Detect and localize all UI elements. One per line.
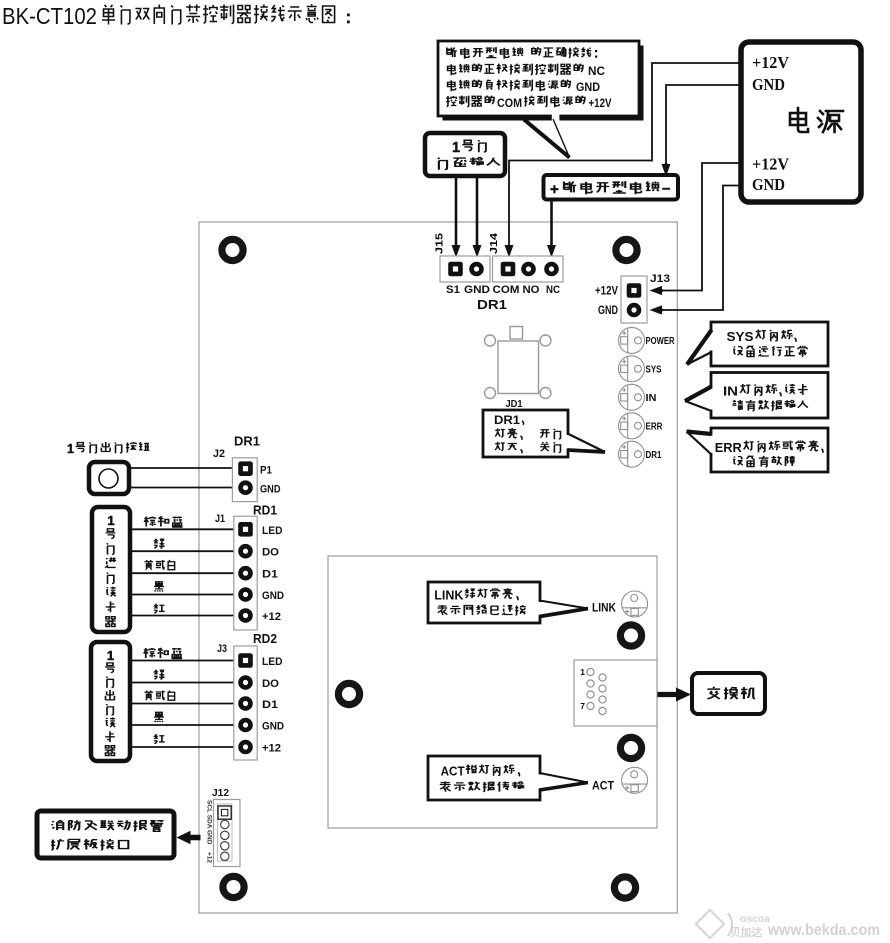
svg-text:BK-CT102: BK-CT102 bbox=[2, 3, 97, 29]
svg-text:NO: NO bbox=[523, 284, 540, 296]
svg-text:GND: GND bbox=[262, 721, 284, 733]
svg-text:D1: D1 bbox=[262, 569, 278, 581]
svg-text:DR1: DR1 bbox=[646, 450, 662, 461]
svg-text:GND: GND bbox=[464, 284, 490, 296]
svg-text:+12V: +12V bbox=[752, 53, 790, 72]
svg-text:1: 1 bbox=[452, 140, 460, 156]
svg-text:DR1: DR1 bbox=[477, 297, 507, 312]
svg-text:GND: GND bbox=[598, 305, 618, 317]
svg-text:SCL SDA GND: SCL SDA GND bbox=[206, 800, 213, 845]
svg-text:+12: +12 bbox=[206, 852, 213, 863]
svg-text:GND: GND bbox=[576, 80, 600, 94]
svg-text:GND: GND bbox=[260, 484, 281, 496]
svg-text:COM: COM bbox=[493, 284, 520, 296]
svg-text:J3: J3 bbox=[217, 643, 227, 655]
svg-text:DO: DO bbox=[262, 678, 279, 690]
svg-text:+: + bbox=[550, 181, 559, 198]
svg-text:贝加达: 贝加达 bbox=[730, 925, 762, 939]
svg-text:GND: GND bbox=[752, 75, 785, 94]
svg-text:1: 1 bbox=[67, 442, 74, 456]
svg-text:oscoa: oscoa bbox=[740, 914, 770, 925]
svg-text:1: 1 bbox=[580, 667, 585, 677]
svg-text:RD1: RD1 bbox=[253, 503, 277, 518]
svg-text:J2: J2 bbox=[213, 448, 225, 460]
svg-text:1: 1 bbox=[107, 648, 114, 663]
svg-text:+12V: +12V bbox=[595, 286, 618, 298]
svg-text:J13: J13 bbox=[650, 273, 670, 285]
svg-text:LED: LED bbox=[262, 525, 283, 537]
svg-text:1: 1 bbox=[107, 513, 114, 528]
svg-text:LINK: LINK bbox=[434, 589, 463, 603]
svg-text:ACT: ACT bbox=[592, 781, 614, 793]
svg-text:D1: D1 bbox=[262, 699, 278, 711]
svg-text:www.bekda.com: www.bekda.com bbox=[767, 922, 880, 939]
svg-text:S1: S1 bbox=[446, 284, 460, 296]
svg-text:GND: GND bbox=[752, 175, 785, 194]
svg-text:JD1: JD1 bbox=[506, 398, 523, 410]
svg-text:ERR: ERR bbox=[715, 440, 743, 455]
svg-text:DO: DO bbox=[262, 547, 279, 559]
svg-text:+12V: +12V bbox=[589, 96, 612, 110]
svg-text:ERR: ERR bbox=[646, 421, 664, 432]
svg-text:+12: +12 bbox=[262, 743, 281, 755]
svg-text:COM: COM bbox=[497, 96, 522, 110]
svg-text:+12V: +12V bbox=[752, 155, 790, 174]
svg-text:IN: IN bbox=[646, 393, 657, 404]
svg-text:LED: LED bbox=[262, 656, 283, 668]
svg-text:SYS: SYS bbox=[646, 364, 662, 375]
svg-text:RD2: RD2 bbox=[253, 631, 277, 646]
svg-text:J1: J1 bbox=[215, 513, 225, 525]
svg-text:NC: NC bbox=[588, 64, 605, 78]
svg-text:DR1: DR1 bbox=[234, 434, 260, 449]
svg-text:GND: GND bbox=[262, 590, 284, 602]
svg-text:DR1: DR1 bbox=[494, 413, 520, 427]
svg-text:LINK: LINK bbox=[592, 603, 617, 615]
svg-text:J12: J12 bbox=[212, 788, 229, 799]
svg-text:NC: NC bbox=[546, 284, 560, 296]
svg-text:J14: J14 bbox=[488, 233, 500, 254]
svg-text:P1: P1 bbox=[260, 465, 272, 477]
svg-text:+12: +12 bbox=[262, 611, 281, 623]
svg-text:SYS: SYS bbox=[727, 329, 754, 344]
svg-text:ACT: ACT bbox=[441, 765, 465, 779]
svg-text:POWER: POWER bbox=[646, 336, 676, 347]
svg-text:J15: J15 bbox=[434, 233, 446, 254]
svg-text:–: – bbox=[662, 180, 670, 197]
svg-text:7: 7 bbox=[580, 701, 585, 711]
svg-text:IN: IN bbox=[723, 384, 738, 399]
